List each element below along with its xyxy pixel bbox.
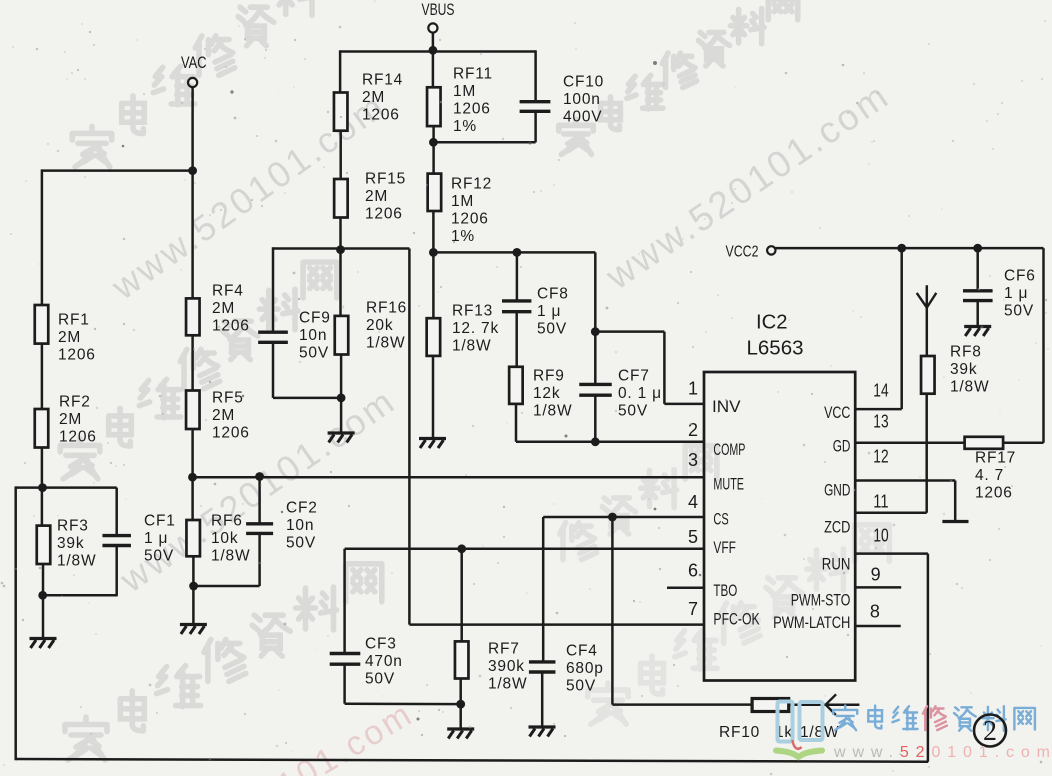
- svg-text:CF2: CF2: [286, 500, 318, 517]
- svg-text:www.520101.com: www.520101.com: [833, 744, 1052, 761]
- svg-text:RF17: RF17: [975, 450, 1016, 467]
- svg-text:50V: 50V: [144, 547, 174, 564]
- svg-text:390k: 390k: [488, 658, 525, 675]
- svg-text:1M: 1M: [451, 193, 474, 210]
- svg-text:L6563: L6563: [747, 338, 804, 360]
- svg-text:2M: 2M: [212, 300, 235, 317]
- svg-text:4: 4: [688, 492, 698, 512]
- svg-text:ZCD: ZCD: [824, 519, 850, 537]
- svg-text:RF4: RF4: [212, 283, 244, 300]
- svg-text:GD: GD: [833, 438, 851, 456]
- svg-text:TBO: TBO: [713, 582, 737, 600]
- svg-text:1/8W: 1/8W: [211, 547, 250, 564]
- svg-text:RF15: RF15: [365, 171, 406, 188]
- svg-text:12k: 12k: [533, 385, 560, 402]
- svg-text:CF6: CF6: [1004, 268, 1036, 285]
- svg-text:12: 12: [873, 446, 888, 466]
- svg-text:1/8W: 1/8W: [57, 552, 96, 569]
- svg-text:10: 10: [873, 526, 888, 546]
- svg-text:COMP: COMP: [713, 441, 745, 459]
- svg-text:RF13: RF13: [452, 303, 493, 320]
- svg-text:12. 7k: 12. 7k: [452, 320, 499, 337]
- svg-text:400V: 400V: [563, 108, 602, 125]
- svg-text:RF2: RF2: [59, 394, 91, 411]
- svg-text:2M: 2M: [58, 329, 81, 346]
- svg-text:1206: 1206: [212, 424, 250, 441]
- svg-text:8: 8: [870, 602, 880, 622]
- svg-text:2M: 2M: [365, 188, 388, 205]
- svg-text:3: 3: [688, 450, 698, 470]
- svg-text:RF10: RF10: [719, 724, 760, 741]
- svg-text:RF5: RF5: [212, 390, 244, 407]
- svg-text:1 μ: 1 μ: [537, 303, 561, 320]
- svg-text:50V: 50V: [286, 534, 316, 551]
- svg-text:1 μ: 1 μ: [144, 530, 168, 547]
- svg-text:RF3: RF3: [57, 518, 89, 535]
- svg-text:RF1: RF1: [58, 312, 90, 329]
- svg-text:0. 1 μ: 0. 1 μ: [618, 385, 662, 402]
- svg-text:VCC: VCC: [824, 404, 850, 422]
- svg-text:2M: 2M: [212, 407, 235, 424]
- svg-text:CF4: CF4: [566, 643, 598, 660]
- svg-text:1206: 1206: [975, 484, 1013, 501]
- svg-text:1/8W: 1/8W: [950, 378, 989, 395]
- svg-text:10n: 10n: [286, 517, 314, 534]
- svg-text:100n: 100n: [563, 91, 601, 108]
- svg-text:50V: 50V: [537, 320, 567, 337]
- svg-text:470n: 470n: [365, 653, 403, 670]
- svg-text:11: 11: [873, 491, 888, 511]
- svg-text:1/8W: 1/8W: [452, 337, 491, 354]
- svg-text:RF8: RF8: [950, 344, 982, 361]
- svg-text:PWM-STO: PWM-STO: [791, 591, 851, 609]
- svg-text:1206: 1206: [212, 317, 250, 334]
- svg-text:1206: 1206: [453, 100, 491, 117]
- svg-text:680p: 680p: [566, 660, 604, 677]
- svg-text:CF7: CF7: [618, 368, 650, 385]
- svg-text:2M: 2M: [362, 89, 385, 106]
- svg-text:1/8W: 1/8W: [488, 675, 527, 692]
- svg-text:VAC: VAC: [181, 54, 207, 72]
- svg-text:1M: 1M: [453, 83, 476, 100]
- svg-text:6: 6: [688, 561, 698, 581]
- svg-text:1206: 1206: [59, 428, 97, 445]
- svg-text:VCC2: VCC2: [726, 244, 759, 261]
- svg-text:50V: 50V: [365, 670, 395, 687]
- svg-text:CF1: CF1: [144, 513, 176, 530]
- svg-text:50V: 50V: [566, 677, 596, 694]
- svg-text:RF12: RF12: [451, 176, 492, 193]
- svg-text:39k: 39k: [57, 535, 84, 552]
- svg-text:RF9: RF9: [533, 368, 565, 385]
- svg-text:RF11: RF11: [453, 66, 493, 83]
- svg-text:1/8W: 1/8W: [366, 334, 405, 351]
- svg-text:10k: 10k: [211, 530, 238, 547]
- svg-text:IC2: IC2: [756, 312, 788, 334]
- svg-text:PWM-LATCH: PWM-LATCH: [773, 614, 850, 632]
- svg-text:1206: 1206: [362, 106, 400, 123]
- svg-text:RF7: RF7: [488, 641, 520, 658]
- svg-text:1%: 1%: [453, 118, 477, 135]
- svg-text:RF14: RF14: [362, 72, 403, 89]
- svg-text:10n: 10n: [299, 327, 327, 344]
- svg-text:20k: 20k: [366, 317, 393, 334]
- svg-text:CF3: CF3: [365, 636, 397, 653]
- svg-text:GND: GND: [824, 482, 850, 500]
- svg-text:50V: 50V: [299, 344, 329, 361]
- svg-text:50V: 50V: [618, 402, 648, 419]
- svg-text:1206: 1206: [58, 346, 96, 363]
- svg-text:39k: 39k: [950, 361, 977, 378]
- svg-text:CF9: CF9: [299, 310, 331, 327]
- svg-text:CF10: CF10: [563, 74, 604, 91]
- svg-text:RF16: RF16: [366, 300, 407, 317]
- svg-text:14: 14: [873, 380, 888, 400]
- svg-text:2M: 2M: [59, 411, 82, 428]
- svg-text:13: 13: [873, 412, 888, 432]
- svg-text:1206: 1206: [451, 210, 489, 227]
- svg-text:1206: 1206: [365, 205, 403, 222]
- svg-text:CS: CS: [713, 510, 728, 528]
- svg-text:RUN: RUN: [822, 555, 851, 573]
- svg-text:9: 9: [871, 565, 881, 585]
- svg-text:MUTE: MUTE: [713, 475, 744, 493]
- svg-text:VFF: VFF: [713, 539, 736, 557]
- svg-text:1: 1: [688, 378, 698, 398]
- svg-text:7: 7: [688, 599, 698, 619]
- svg-text:2: 2: [983, 716, 997, 747]
- svg-text:RF6: RF6: [211, 513, 243, 530]
- svg-text:VBUS: VBUS: [422, 1, 455, 19]
- svg-text:1 μ: 1 μ: [1004, 285, 1028, 302]
- svg-text:4. 7: 4. 7: [975, 467, 1004, 484]
- svg-text:PFC-OK: PFC-OK: [713, 611, 759, 629]
- svg-text:1/8W: 1/8W: [533, 402, 572, 419]
- svg-text:5: 5: [688, 527, 698, 547]
- svg-text:50V: 50V: [1004, 302, 1034, 319]
- svg-text:CF8: CF8: [537, 286, 569, 303]
- svg-text:2: 2: [688, 420, 698, 440]
